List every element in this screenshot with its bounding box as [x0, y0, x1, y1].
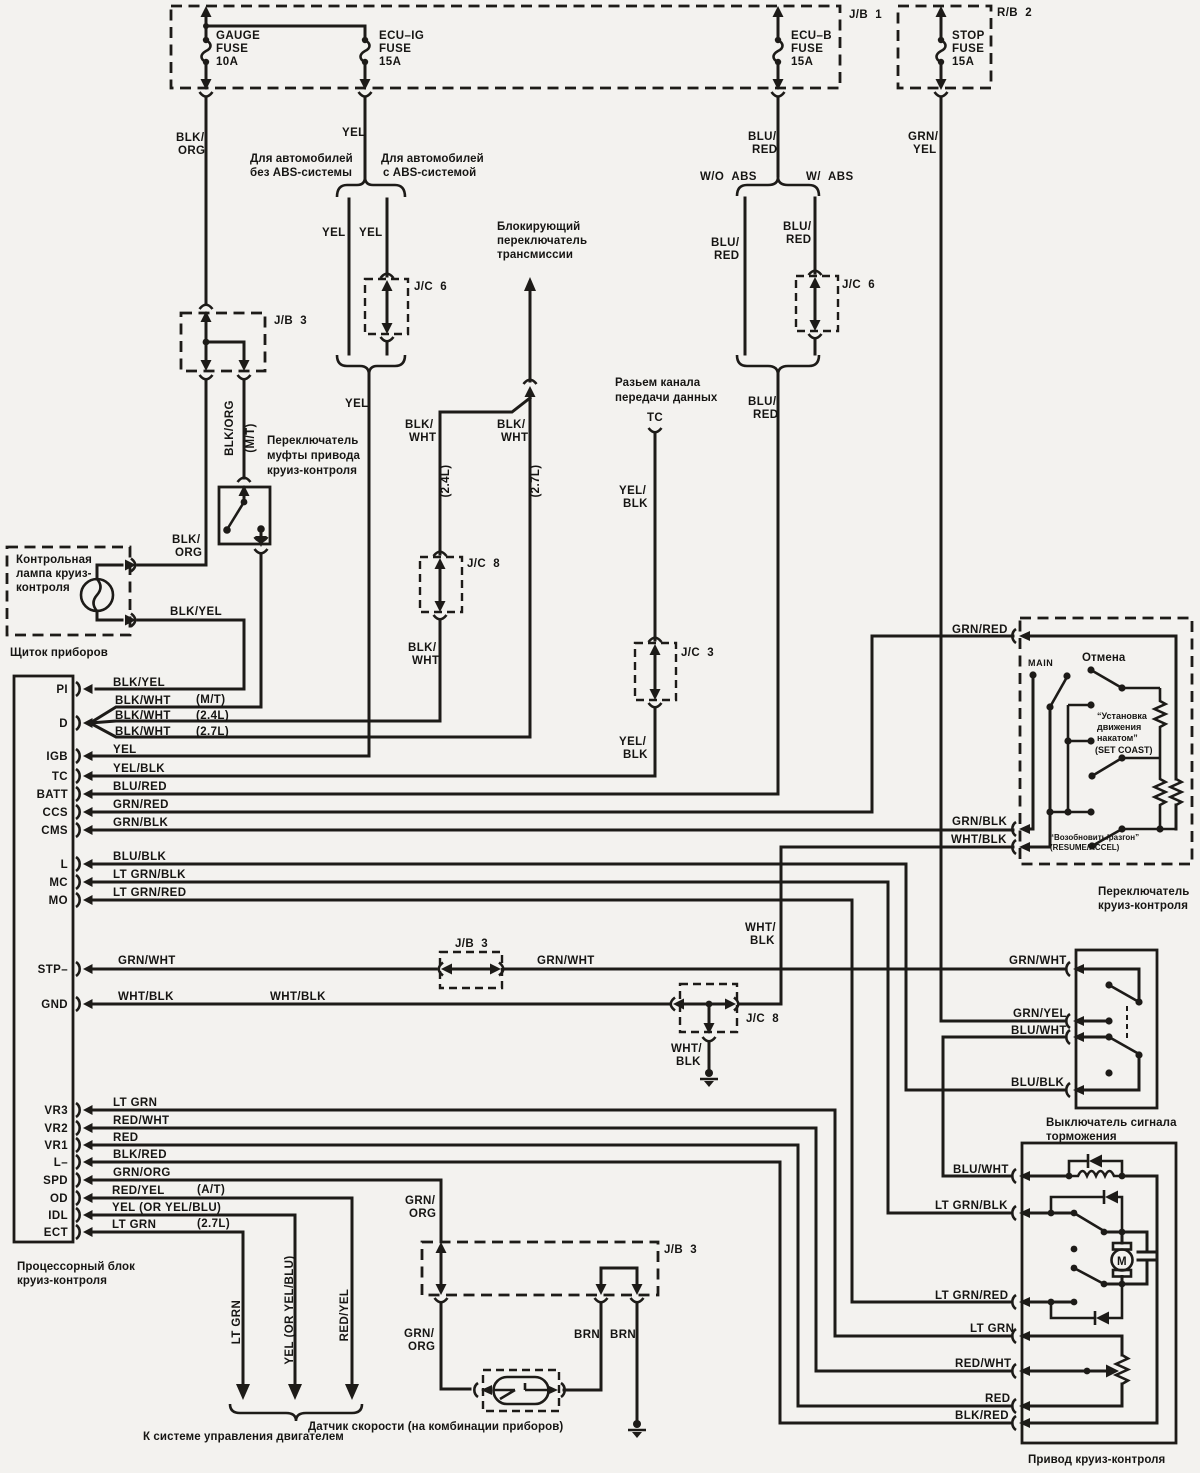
svg-text:круиз-контроля: круиз-контроля [267, 465, 357, 477]
svg-text:OD: OD [50, 1193, 68, 1205]
wire BLU/RED down to BATT [777, 373, 780, 794]
wire YEL left branch [348, 199, 351, 354]
wire BLK/ORG from GAUGE fuse down to J/B 3 [205, 97, 208, 304]
wire RED VR1 row [90, 1145, 1012, 1406]
svg-text:BLK/RED: BLK/RED [955, 1410, 1009, 1422]
svg-text:BLK: BLK [623, 498, 648, 510]
svg-text:BRN: BRN [574, 1329, 600, 1341]
wire BLU/RED left branch [744, 198, 747, 354]
svg-text:BLK/WHT: BLK/WHT [115, 726, 171, 738]
svg-text:J/C 3: J/C 3 [681, 647, 714, 659]
upper brake lever [1135, 998, 1142, 1005]
svg-text:(2.7L): (2.7L) [530, 464, 542, 497]
svg-text:RED/WHT: RED/WHT [955, 1358, 1011, 1370]
svg-text:GRN/ORG: GRN/ORG [113, 1167, 171, 1179]
svg-text:YEL: YEL [322, 227, 346, 239]
svg-text:L–: L– [54, 1157, 68, 1169]
potentiometer (actuator) [1116, 1355, 1128, 1384]
svg-text:Отмена: Отмена [1082, 652, 1126, 664]
resume lever [1088, 842, 1095, 849]
svg-text:BLU/WHT: BLU/WHT [1011, 1025, 1067, 1037]
svg-text:15A: 15A [379, 56, 401, 68]
wire RED/WHT VR2 row [90, 1128, 1012, 1371]
svg-text:YEL/: YEL/ [619, 485, 647, 497]
svg-text:J/B 1: J/B 1 [849, 9, 882, 21]
svg-text:J/C 8: J/C 8 [467, 558, 500, 570]
svg-text:15A: 15A [791, 56, 813, 68]
svg-text:BLU/WHT: BLU/WHT [953, 1164, 1009, 1176]
svg-text:ECU–B: ECU–B [791, 30, 832, 42]
svg-text:WHT: WHT [409, 432, 436, 444]
svg-text:D: D [59, 718, 68, 730]
svg-text:(RESUME/ACCEL): (RESUME/ACCEL) [1050, 843, 1120, 852]
arrows to engine management system [236, 1384, 250, 1400]
svg-text:GAUGE: GAUGE [216, 30, 260, 42]
svg-text:Датчик скорости (на комбинации: Датчик скорости (на комбинации приборов) [308, 1421, 563, 1433]
svg-text:MAIN: MAIN [1028, 658, 1053, 668]
capacitor (actuator) [1138, 1232, 1156, 1284]
svg-text:GRN/BLK: GRN/BLK [113, 817, 168, 829]
connector below ECU-IG fuse [359, 92, 372, 97]
svg-text:BLK/: BLK/ [497, 419, 526, 431]
svg-text:WHT/BLK: WHT/BLK [118, 991, 174, 1003]
svg-text:BLU/BLK: BLU/BLK [1011, 1077, 1065, 1089]
svg-text:накатом”: накатом” [1097, 733, 1138, 743]
svg-text:CMS: CMS [41, 825, 68, 837]
wire GRN/WHT to brake switch [505, 968, 1066, 971]
svg-text:торможения: торможения [1046, 1131, 1117, 1143]
svg-text:ORG: ORG [408, 1341, 435, 1353]
svg-text:SPD: SPD [43, 1175, 68, 1187]
junction connector J/C 6 (right) [796, 276, 838, 331]
wire BLK/WHT (2.4L) branch diagonal [440, 398, 530, 554]
switch contact to exit [257, 525, 265, 533]
svg-text:BLK: BLK [750, 935, 775, 947]
wire BLK/WHT (2.7L) down to pin D [529, 394, 532, 737]
svg-text:BATT: BATT [37, 789, 68, 801]
top rail inside cruise switch [1027, 636, 1176, 779]
relay block R/B 2 (dashed) [898, 6, 991, 88]
svg-text:IDL: IDL [48, 1210, 68, 1222]
svg-text:BLK/WHT: BLK/WHT [115, 695, 171, 707]
svg-text:(2.7L): (2.7L) [197, 1218, 230, 1230]
junction block J/B 3 (middle, dashed) [440, 952, 502, 988]
junction block J/B 3 (top left, dashed) [181, 313, 265, 371]
svg-text:Переключатель: Переключатель [1098, 886, 1189, 898]
svg-text:Выключатель сигнала: Выключатель сигнала [1046, 1117, 1177, 1129]
svg-text:RED: RED [113, 1132, 138, 1144]
svg-text:LT GRN/RED: LT GRN/RED [113, 887, 186, 899]
wire WHT/BLK from J/C 8 to cruise switch [739, 847, 1013, 1004]
set-coast contact column [1067, 705, 1070, 812]
wire WHT/BLK from J/C 8 to ground [708, 1004, 711, 1022]
wire GRN/YEL stop fuse to brake switch [941, 1020, 1066, 1023]
svg-text:круиз-контроля: круиз-контроля [17, 1275, 107, 1287]
svg-text:CCS: CCS [43, 807, 68, 819]
svg-text:без ABS-системы: без ABS-системы [250, 167, 352, 179]
wire YEL/BLK from TC down [654, 433, 657, 640]
wire GRN/ORG SPD row [90, 1180, 441, 1240]
svg-text:BLK: BLK [623, 749, 648, 761]
bottom rail in cruise switch [1122, 828, 1176, 831]
svg-text:J/B 3: J/B 3 [664, 1244, 697, 1256]
wire to blocking transmission switch (arrow up) [524, 277, 536, 291]
svg-text:ORG: ORG [409, 1208, 436, 1220]
svg-text:BLK/: BLK/ [408, 642, 437, 654]
svg-text:J/B 3: J/B 3 [455, 938, 488, 950]
svg-text:YEL: YEL [113, 744, 137, 756]
svg-text:BLK/RED: BLK/RED [113, 1149, 167, 1161]
svg-text:“Установка: “Установка [1097, 711, 1148, 721]
svg-text:BLK/: BLK/ [172, 534, 201, 546]
svg-text:BLK/: BLK/ [405, 419, 434, 431]
resistor R2 (cruise switch) [1155, 758, 1166, 829]
svg-text:LT GRN/RED: LT GRN/RED [935, 1290, 1008, 1302]
svg-text:GRN/BLK: GRN/BLK [952, 816, 1007, 828]
svg-text:Процессорный блок: Процессорный блок [17, 1261, 135, 1273]
wire LT GRN/BLK MC row [90, 882, 1012, 1213]
wire LT GRN (2.7L) ECT row [90, 1232, 243, 1384]
svg-text:FUSE: FUSE [216, 43, 248, 55]
svg-text:MC: MC [49, 877, 68, 889]
svg-text:ORG: ORG [178, 145, 205, 157]
svg-text:R/B 2: R/B 2 [997, 7, 1032, 19]
motor M [1121, 1232, 1124, 1243]
svg-text:YEL (OR YEL/BLU): YEL (OR YEL/BLU) [284, 1255, 296, 1364]
junction connector J/C 3 [635, 643, 676, 700]
svg-text:VR1: VR1 [44, 1140, 68, 1152]
wire BLK/WHT (M/T) from D [90, 707, 261, 723]
diode D2 bypass (actuator) [1051, 1197, 1122, 1232]
speed sensor body [494, 1377, 549, 1404]
junction connector J/C 6 (left) [365, 279, 408, 334]
wire BLU/RED right branch [814, 198, 817, 273]
svg-text:BLK/YEL: BLK/YEL [170, 606, 222, 618]
svg-text:LT GRN/BLK: LT GRN/BLK [113, 869, 186, 881]
ECU box (cruise control computer) [14, 676, 73, 1242]
svg-text:YEL: YEL [342, 127, 366, 139]
GRN/ORG entry into J/B 3 [436, 1242, 447, 1253]
svg-text:YEL: YEL [345, 398, 369, 410]
wire BLU/RED from ECU-B fuse [777, 97, 780, 176]
BRN entries at J/B 3 bottom [596, 1284, 607, 1295]
brake light switch box [1076, 950, 1157, 1108]
svg-text:переключатель: переключатель [497, 235, 587, 247]
wire BRN to ground [636, 1303, 639, 1419]
svg-text:BLK/ORG: BLK/ORG [224, 400, 236, 456]
svg-text:Переключатель: Переключатель [267, 435, 358, 447]
svg-text:VR3: VR3 [44, 1105, 68, 1117]
junction connector J/C 8 (GND) [680, 984, 737, 1032]
svg-text:IGB: IGB [46, 751, 68, 763]
brace splitting BLU/RED wire [737, 177, 819, 196]
junction block J/B 1 (dashed) [171, 6, 840, 88]
svg-text:WHT/: WHT/ [671, 1043, 702, 1055]
brace joining YEL wires [337, 355, 405, 375]
svg-text:GRN/RED: GRN/RED [952, 624, 1008, 636]
clutch coil row in actuator [1027, 1175, 1069, 1178]
svg-text:RED/YEL: RED/YEL [339, 1289, 351, 1342]
cruise control switch box (dashed) [1020, 618, 1192, 864]
connector entering J/B 3 [200, 305, 213, 309]
svg-text:10A: 10A [216, 56, 238, 68]
brace under arrows [230, 1404, 362, 1421]
svg-text:GRN/: GRN/ [405, 1195, 436, 1207]
svg-text:BLU/: BLU/ [748, 131, 777, 143]
lamp symbol [81, 579, 113, 611]
svg-text:J/C 8: J/C 8 [746, 1013, 779, 1025]
lamp connector arrows [125, 560, 136, 571]
wire GRN/ORG to speed sensor [441, 1303, 470, 1389]
svg-text:RED: RED [714, 250, 739, 262]
svg-text:YEL/: YEL/ [619, 736, 647, 748]
wire YEL IGB row [90, 755, 369, 758]
svg-text:Для автомобилей: Для автомобилей [381, 153, 484, 165]
svg-text:Контрольная: Контрольная [16, 554, 92, 566]
svg-text:YEL: YEL [359, 227, 383, 239]
svg-text:GRN/YEL: GRN/YEL [1013, 1008, 1067, 1020]
svg-text:L: L [61, 859, 68, 871]
fuse GAUGE 10A [205, 12, 208, 84]
svg-text:(M/T): (M/T) [245, 423, 257, 452]
svg-text:(M/T): (M/T) [196, 694, 225, 706]
svg-text:GRN/RED: GRN/RED [113, 799, 169, 811]
svg-text:W/O ABS: W/O ABS [700, 171, 757, 183]
svg-text:GRN/: GRN/ [908, 131, 939, 143]
svg-text:WHT/: WHT/ [745, 922, 776, 934]
wire BLU/WHT brake switch to actuator [943, 1037, 1066, 1176]
svg-text:LT GRN: LT GRN [970, 1323, 1014, 1335]
svg-text:BLK/YEL: BLK/YEL [113, 677, 165, 689]
svg-text:RED: RED [753, 409, 778, 421]
cancel lever [1087, 666, 1094, 673]
svg-text:WHT: WHT [501, 432, 528, 444]
svg-text:движения: движения [1097, 722, 1141, 732]
svg-text:с ABS-системой: с ABS-системой [383, 167, 476, 179]
contact rail in cruise switch [1046, 808, 1053, 815]
diode D1 bypass (actuator) [1069, 1161, 1122, 1176]
svg-text:Разьем канала: Разьем канала [615, 377, 701, 389]
svg-text:FUSE: FUSE [379, 43, 411, 55]
svg-text:GRN/WHT: GRN/WHT [537, 955, 595, 967]
wire BLK/WHT (2.4L) from D [90, 721, 440, 723]
mechanical link (dashed) [1126, 1006, 1128, 1042]
svg-text:YEL/BLK: YEL/BLK [113, 763, 165, 775]
svg-text:RED: RED [752, 144, 777, 156]
cruise control indicator lamp box (dashed) [7, 547, 130, 635]
wire WHT/BLK to lever column [1027, 707, 1050, 847]
lower brake lever [1105, 1033, 1112, 1040]
svg-text:Блокирующий: Блокирующий [497, 221, 580, 233]
svg-text:BLK: BLK [676, 1056, 701, 1068]
svg-text:LT GRN: LT GRN [231, 1300, 243, 1344]
svg-text:RED: RED [985, 1393, 1010, 1405]
connector on BLK/WHT wire [524, 380, 537, 384]
svg-text:BLU/RED: BLU/RED [113, 781, 167, 793]
MAIN switch vertical [1027, 676, 1033, 829]
svg-text:Щиток приборов: Щиток приборов [10, 647, 108, 659]
diode D3 (actuator) [1051, 1284, 1122, 1318]
svg-text:LT GRN: LT GRN [112, 1219, 156, 1231]
svg-text:MO: MO [49, 895, 68, 907]
wire LT GRN/RED MO row [90, 900, 1012, 1302]
svg-text:круиз-контроля: круиз-контроля [1098, 900, 1188, 912]
wire YEL down to IGB [368, 373, 371, 756]
svg-text:RED/YEL: RED/YEL [112, 1185, 165, 1197]
set-coast lever [1088, 772, 1095, 779]
lower motor switch lever [1071, 1246, 1078, 1253]
wire GRN/YEL from STOP fuse down to brake switch [940, 97, 943, 1021]
fuse ECU-B 15A [777, 12, 780, 84]
svg-text:W/ ABS: W/ ABS [806, 171, 854, 183]
svg-text:лампа круиз-: лампа круиз- [16, 568, 92, 580]
svg-text:(2.4L): (2.4L) [196, 710, 229, 722]
wire YEL right branch [386, 199, 389, 276]
svg-text:передачи данных: передачи данных [615, 392, 718, 404]
svg-text:BLU/: BLU/ [748, 396, 777, 408]
wire BLK/YEL lamp to PI [96, 620, 244, 689]
svg-text:(SET COAST): (SET COAST) [1095, 745, 1153, 755]
cruise actuator box [1022, 1143, 1176, 1443]
wire BRN sensor to J/B 3 [564, 1304, 601, 1390]
fuse ECU-IG 15A [206, 26, 365, 84]
wire YEL/BLK TC row [90, 775, 655, 778]
wire GRN/BLK CMS row [90, 829, 1013, 832]
svg-text:BRN: BRN [610, 1329, 636, 1341]
svg-text:BLU/BLK: BLU/BLK [113, 851, 167, 863]
svg-text:BLU/: BLU/ [783, 221, 812, 233]
fuse STOP 15A [940, 12, 943, 84]
svg-text:STP–: STP– [38, 964, 69, 976]
svg-text:ECU–IG: ECU–IG [379, 30, 424, 42]
svg-text:YEL (OR YEL/BLU): YEL (OR YEL/BLU) [112, 1202, 221, 1214]
svg-text:VR2: VR2 [44, 1123, 68, 1135]
resistor R3 (cruise switch) [1171, 779, 1182, 805]
svg-text:LT GRN: LT GRN [113, 1097, 157, 1109]
connector GRN/RED into cruise switch [1012, 629, 1016, 643]
svg-text:TC: TC [647, 412, 663, 424]
switch lever inside clutch switch [241, 499, 248, 506]
wire LT GRN VR3 row [90, 1110, 1012, 1336]
wire BLK/WHT (2.7L) from D [90, 723, 530, 737]
resistor R1 (cruise switch) [1155, 688, 1166, 758]
brace joining BLU/RED wires [737, 355, 819, 375]
svg-text:BLU/: BLU/ [711, 237, 740, 249]
svg-text:ECT: ECT [44, 1227, 68, 1239]
svg-text:STOP: STOP [952, 30, 985, 42]
svg-text:“Возобновить/разгон”: “Возобновить/разгон” [1050, 833, 1139, 842]
svg-text:GRN/: GRN/ [404, 1328, 435, 1340]
svg-text:WHT/BLK: WHT/BLK [270, 991, 326, 1003]
svg-text:GND: GND [41, 999, 68, 1011]
svg-text:Привод круиз-контроля: Привод круиз-контроля [1028, 1454, 1165, 1466]
svg-text:TC: TC [52, 771, 68, 783]
svg-text:GRN/WHT: GRN/WHT [118, 955, 176, 967]
junction connector J/C 8 (on 2.4L wire) [420, 557, 462, 612]
svg-text:BLK/WHT: BLK/WHT [115, 710, 171, 722]
wire YEL (OR YEL/BLU) IDL row [90, 1215, 295, 1384]
svg-text:(2.4L): (2.4L) [440, 464, 452, 497]
svg-text:муфты привода: муфты привода [267, 450, 360, 462]
svg-text:J/B 3: J/B 3 [274, 315, 307, 327]
svg-text:WHT/BLK: WHT/BLK [951, 834, 1007, 846]
wire BLU/BLK L row [90, 864, 1066, 1090]
svg-text:YEL: YEL [913, 144, 937, 156]
wire WHT/BLK GND row [90, 1003, 670, 1006]
svg-text:M: M [1117, 1256, 1127, 1268]
svg-text:RED: RED [786, 234, 811, 246]
J/B 3 exits [201, 360, 212, 371]
svg-text:контроля: контроля [16, 582, 70, 594]
svg-text:LT GRN/BLK: LT GRN/BLK [935, 1200, 1008, 1212]
ground (speed sensor circuit) [633, 1420, 641, 1428]
speed sensor connectors [474, 1383, 478, 1397]
svg-text:GRN/WHT: GRN/WHT [1009, 955, 1067, 967]
svg-text:Для автомобилей: Для автомобилей [250, 153, 353, 165]
wire GRN/RED CCS row [90, 636, 1013, 812]
svg-text:15A: 15A [952, 56, 974, 68]
speed sensor (dashed box) [483, 1370, 559, 1411]
wire BLK/ORG (M/T) to clutch switch [243, 380, 246, 478]
MAIN switch lever [1046, 703, 1053, 710]
cruise clutch switch box [219, 487, 270, 544]
connector below ECU-B fuse [772, 92, 785, 97]
node junction in J/B 3 [203, 339, 210, 346]
svg-text:(A/T): (A/T) [197, 1184, 225, 1196]
wire BLU/RED BATT row [90, 793, 778, 796]
svg-text:PI: PI [56, 684, 68, 696]
svg-text:RED/WHT: RED/WHT [113, 1115, 169, 1127]
upper motor switch lever [1074, 1213, 1104, 1231]
junction block J/B 3 (bottom, dashed) [422, 1242, 658, 1295]
svg-text:трансмиссии: трансмиссии [497, 249, 573, 261]
svg-text:J/C 6: J/C 6 [414, 281, 447, 293]
svg-text:FUSE: FUSE [791, 43, 823, 55]
wire BLK/ORG to lamp [138, 380, 206, 565]
ground (below J/C 8) [705, 1069, 713, 1077]
connector below STOP fuse [935, 92, 948, 97]
svg-text:(2.7L): (2.7L) [196, 726, 229, 738]
wire RED/YEL (A/T) OD row [90, 1198, 352, 1384]
connector below GAUGE fuse [200, 92, 213, 97]
wire YEL from ECU-IG fuse [364, 97, 367, 178]
wire BLK/RED L- row [90, 1162, 1012, 1423]
svg-text:WHT: WHT [412, 655, 439, 667]
svg-text:FUSE: FUSE [952, 43, 984, 55]
wire GRN/WHT STP- row [90, 968, 436, 971]
svg-text:BLK/: BLK/ [176, 132, 205, 144]
svg-text:J/C 6: J/C 6 [842, 279, 875, 291]
brace splitting YEL wire [337, 177, 405, 197]
svg-text:ORG: ORG [175, 547, 202, 559]
